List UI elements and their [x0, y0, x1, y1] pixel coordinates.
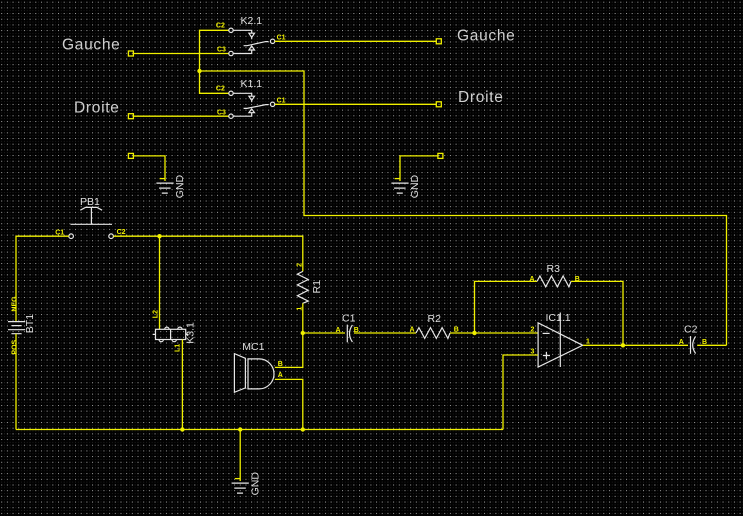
- svg-text:BT1: BT1: [24, 314, 36, 333]
- wire C2 B to feedback run: [697, 344, 726, 346]
- wire junction down to relay coil: [159, 236, 161, 329]
- svg-text:2: 2: [531, 327, 535, 334]
- svg-text:A: A: [530, 276, 535, 283]
- svg-text:POS: POS: [11, 339, 18, 354]
- resistor R3: [530, 263, 580, 287]
- wire relay coil bottom to rail: [181, 340, 183, 430]
- svg-text:Droite: Droite: [458, 89, 504, 106]
- port Droite left: [74, 100, 133, 119]
- op-amp IC1.1: [531, 312, 591, 367]
- wire op-amp output to C2: [583, 344, 688, 346]
- relay contact K1.1: [216, 78, 286, 118]
- wire R3 right leg to output: [571, 281, 623, 345]
- svg-text:A: A: [336, 327, 341, 334]
- wire left terminal to ground: [133, 156, 165, 181]
- wire C1 B to R2 A: [354, 332, 416, 334]
- svg-text:C1: C1: [277, 34, 286, 41]
- wire K1.1 C1 to Droite-right: [275, 103, 437, 105]
- svg-text:K2.1: K2.1: [241, 15, 263, 27]
- svg-text:K3.1: K3.1: [185, 322, 197, 344]
- ground left: [156, 174, 186, 198]
- node bus junction: [197, 69, 201, 73]
- node signal junction: [301, 331, 305, 335]
- svg-text:1: 1: [586, 339, 590, 346]
- node PB1 net junction: [157, 234, 161, 238]
- svg-text:NEG: NEG: [11, 296, 18, 312]
- node output junction: [621, 343, 625, 347]
- wire MC1 A to bottom rail: [275, 379, 303, 429]
- svg-text:L2: L2: [152, 310, 159, 318]
- wire right terminal to ground: [400, 156, 438, 181]
- wire R3 left leg: [475, 281, 538, 333]
- svg-text:A: A: [278, 372, 283, 379]
- svg-text:C2: C2: [216, 86, 225, 93]
- svg-text:Gauche: Gauche: [62, 37, 121, 54]
- svg-text:C3: C3: [217, 109, 226, 116]
- terminal GND right: [438, 153, 443, 158]
- microphone MC1: [234, 341, 282, 392]
- wire R1 bottom to signal junction: [302, 303, 304, 333]
- wire PB1 C2 to R1 top: [113, 236, 302, 271]
- port Gauche right: [436, 28, 515, 45]
- svg-text:C1: C1: [55, 230, 64, 237]
- wire junction bus to long feedback run: [200, 71, 727, 345]
- svg-text:K1.1: K1.1: [241, 78, 263, 90]
- capacitor C1: [336, 312, 359, 342]
- wire battery top to PB1 C1: [16, 236, 69, 321]
- svg-text:C2: C2: [216, 23, 225, 30]
- svg-text:R1: R1: [311, 280, 323, 294]
- relay contact K2.1: [216, 15, 286, 56]
- svg-text:C2: C2: [684, 323, 698, 335]
- node R2/R3 junction: [472, 331, 476, 335]
- terminal GND left: [128, 153, 133, 158]
- svg-text:C3: C3: [217, 46, 226, 53]
- wire R2 B to op-amp pin2: [450, 332, 538, 334]
- svg-text:A: A: [410, 326, 415, 333]
- port Gauche left: [62, 37, 133, 57]
- svg-text:L1: L1: [175, 344, 182, 352]
- resistor R2: [410, 313, 459, 338]
- svg-text:MC1: MC1: [242, 341, 264, 353]
- wire bottom rail: [16, 429, 503, 431]
- wire Droite-left to K1.1 C3: [133, 115, 228, 117]
- pushbutton PB1: [55, 196, 125, 239]
- svg-text:GND: GND: [174, 174, 186, 198]
- relay coil K3.1: [152, 310, 196, 352]
- svg-text:R3: R3: [547, 263, 561, 275]
- wire MC1 B to signal junction: [275, 333, 303, 367]
- wire K2.1 C1 to Gauche-right: [275, 40, 437, 42]
- svg-text:C1: C1: [277, 97, 286, 104]
- svg-text:C1: C1: [342, 312, 356, 324]
- svg-text:Gauche: Gauche: [457, 28, 516, 45]
- wire op-amp pin3 to bottom rail: [503, 355, 538, 430]
- svg-text:Droite: Droite: [74, 100, 120, 117]
- svg-text:R2: R2: [428, 313, 442, 325]
- node relay coil on rail: [180, 427, 184, 431]
- port Droite right: [436, 89, 503, 107]
- resistor R1: [296, 263, 323, 311]
- svg-text:2: 2: [296, 263, 303, 267]
- ground right: [391, 174, 421, 198]
- svg-text:GND: GND: [249, 472, 261, 496]
- svg-text:PB1: PB1: [80, 196, 100, 208]
- wire signal junction to C1: [303, 332, 345, 334]
- wire bus left vertical K2.1/K1.1 commons: [200, 30, 229, 93]
- node ground stem on rail: [238, 427, 242, 431]
- svg-text:C2: C2: [117, 229, 126, 236]
- svg-text:B: B: [454, 326, 459, 333]
- svg-text:IC1.1: IC1.1: [546, 312, 571, 324]
- capacitor C2: [679, 323, 707, 354]
- node MC1 A on rail: [301, 427, 305, 431]
- ground bottom: [232, 472, 262, 496]
- svg-text:A: A: [679, 339, 684, 346]
- svg-text:GND: GND: [409, 174, 421, 198]
- battery BT1: [8, 296, 36, 355]
- wire Gauche-left to K2.1 C3: [133, 53, 228, 55]
- wire battery POS to bottom rail: [15, 334, 17, 430]
- wire bottom ground stem: [239, 430, 241, 482]
